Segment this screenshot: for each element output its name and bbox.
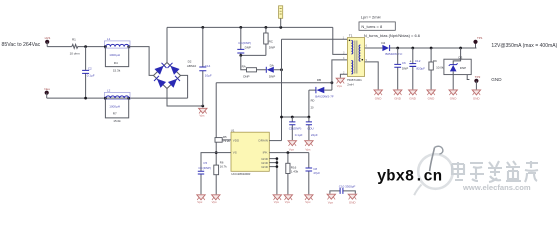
node junction C14 bottom (201, 105, 204, 108)
svg-text:CC(DNP): CC(DNP) (198, 166, 211, 170)
svg-text:GND: GND (261, 165, 269, 169)
wire bias winding to rail (332, 60, 348, 90)
ground secondary zener (449, 90, 457, 95)
wire drain vertical (281, 39, 283, 140)
resistor R5 (216, 139, 231, 141)
node Neu (45, 91, 49, 95)
svg-text:GND: GND (473, 97, 481, 101)
svg-text:Vpx: Vpx (274, 200, 280, 204)
svg-text:DNP: DNP (269, 46, 275, 50)
ground primary drain snubber 2 (305, 141, 313, 146)
svg-text:R7: R7 (113, 111, 117, 115)
snubber capacitor CC DNP (240, 27, 242, 55)
svg-text:RA: RA (242, 65, 246, 69)
svg-text:Vpx: Vpx (328, 200, 334, 204)
wire bridge plus up to rail (166, 27, 168, 62)
wire bridge minus down (167, 89, 203, 107)
node junction ipk-R16 (287, 151, 290, 154)
node TP2 (474, 79, 478, 83)
ground primary under C14 (199, 108, 207, 113)
node junction rail-CC (239, 26, 242, 29)
resistor R7 parallel loop (105, 98, 128, 118)
svg-text:HV1: HV1 (45, 36, 51, 40)
wire bulk rail drop to transformer pin 3 (333, 27, 348, 54)
svg-text:N_turns_bias (Npri/Nbias) = 6.: N_turns_bias (Npri/Nbias) = 6.6 (364, 33, 421, 38)
capacitor C14 (202, 27, 204, 106)
capacitor CD DNP drain snubber (291, 117, 293, 140)
svg-text:47µF: 47µF (313, 171, 320, 175)
wire top rail left (47, 46, 72, 48)
svg-text:C2: C2 (88, 67, 92, 71)
ground secondary C12 (409, 90, 417, 95)
resistor R4 parallel loop (105, 47, 128, 67)
wire drain to transformer pin 1 (282, 38, 348, 40)
wire U1 drain pin (269, 140, 281, 142)
note N_turns boxed (359, 22, 395, 30)
svg-text:CDU: CDU (307, 127, 314, 131)
svg-text:TP1: TP1 (477, 36, 483, 40)
resistor R16 (287, 153, 289, 164)
zener block DNP (453, 48, 460, 64)
wire bottom rail (47, 97, 188, 99)
svg-text:1000µH: 1000µH (109, 53, 120, 57)
svg-text:Lpri = 2mH: Lpri = 2mH (361, 14, 381, 19)
svg-text:R4: R4 (114, 61, 118, 65)
svg-text:CC(DNP): CC(DNP) (238, 41, 251, 45)
wire bias diode to drain row (308, 90, 310, 117)
diode DB BAV20WS-7F (309, 89, 332, 91)
svg-text:12V@350mA (max = 400mA): 12V@350mA (max = 400mA) (491, 43, 557, 49)
node junction rail-C12 (411, 47, 414, 50)
clamp row wire (241, 55, 282, 69)
node junction rail-C14 (201, 26, 204, 29)
node HV1 (45, 40, 49, 44)
svg-text:Neu: Neu (44, 87, 50, 91)
svg-text:GND: GND (409, 97, 417, 101)
svg-text:C12: C12 (415, 59, 421, 63)
wire VDD bias rail (216, 82, 332, 84)
ground primary C8 (305, 195, 313, 200)
svg-text:VDD: VDD (233, 138, 240, 142)
capacitor C12 820uF (412, 48, 414, 89)
svg-text:Vpx: Vpx (305, 200, 311, 204)
svg-text:L1: L1 (107, 37, 111, 41)
zener diode D3 (450, 65, 457, 71)
node VS junction (215, 151, 218, 154)
node TP1 (475, 42, 477, 48)
svg-text:C6: C6 (402, 61, 406, 65)
snubber resistor RC DNP (265, 27, 267, 55)
svg-text:N_turns = 8: N_turns = 8 (361, 24, 383, 29)
svg-text:10 ohm: 10 ohm (70, 52, 81, 56)
svg-text:1000µH: 1000µH (109, 105, 120, 109)
wire bottom rail to bridge right (181, 75, 188, 98)
svg-text:BAV20WS-7F: BAV20WS-7F (315, 95, 334, 99)
watermark chinese chars (452, 161, 538, 182)
ground primary R6 (212, 195, 220, 200)
ground secondary C6 (394, 90, 402, 95)
svg-text:GND: GND (349, 200, 357, 204)
node junction rail-R9 (430, 47, 433, 50)
node junction C2 bottom (84, 97, 87, 100)
ground primary C5 (197, 195, 205, 200)
svg-text:15.0k: 15.0k (113, 119, 121, 123)
bridge rectifier D2 (154, 63, 181, 89)
svg-text:GND: GND (394, 97, 402, 101)
svg-text:DRAIN: DRAIN (259, 138, 268, 142)
svg-text:B0540W-7-F: B0540W-7-F (385, 52, 402, 56)
svg-text:85Vac to 264Vac: 85Vac to 264Vac (2, 42, 41, 48)
node junction drain row left (280, 116, 283, 119)
capacitor CDU drain snubber 2 (308, 117, 310, 140)
node clamp-drain junction (280, 68, 283, 71)
ground secondary TP2 (472, 90, 480, 95)
svg-text:15.3k: 15.3k (113, 69, 121, 73)
wire L1 to bridge (129, 47, 154, 76)
svg-text:UCC28910DR: UCC28910DR (231, 172, 251, 176)
svg-text:Vpx: Vpx (197, 200, 203, 204)
resistor R9 bleeder (430, 48, 432, 89)
svg-text:TP2: TP2 (475, 75, 481, 79)
svg-text:Vpx: Vpx (337, 84, 343, 88)
svg-text:RD: RD (311, 99, 315, 103)
svg-text:D4: D4 (381, 41, 385, 45)
svg-text:L2: L2 (107, 89, 111, 93)
wire bias return to ground (340, 74, 347, 77)
op-amp U1 UCC28910 (231, 132, 269, 171)
svg-text:DB: DB (317, 78, 321, 82)
svg-text:0.1µF: 0.1µF (295, 133, 303, 137)
main bulk rail (167, 26, 333, 28)
ground secondary R9 (427, 90, 435, 95)
svg-text:T1: T1 (349, 34, 353, 38)
capacitor C8 (308, 153, 310, 195)
svg-text:C5: C5 (203, 161, 207, 165)
svg-text:DNP: DNP (243, 74, 249, 78)
node junction C2 top (84, 45, 87, 48)
svg-text:DNP: DNP (245, 46, 251, 50)
ground primary bias (336, 78, 344, 83)
wire secondary output rail (365, 47, 477, 49)
svg-text:0.1µF: 0.1µF (87, 74, 95, 78)
wire VS node to VS pin (216, 152, 231, 154)
svg-text:D2: D2 (188, 60, 192, 64)
svg-text:IPK: IPK (263, 150, 268, 154)
svg-text:GND: GND (491, 77, 502, 82)
node junction rail-fuse (279, 26, 282, 29)
svg-text:1.43k: 1.43k (291, 170, 299, 174)
resistor RA DNP (247, 68, 257, 72)
svg-text:D3: D3 (459, 56, 463, 60)
svg-text:U1: U1 (231, 129, 235, 133)
svg-text:ABS10: ABS10 (187, 64, 197, 68)
svg-text:Vpx: Vpx (289, 148, 295, 152)
svg-text:R1: R1 (72, 38, 76, 42)
diode DA DNP (267, 67, 274, 73)
svg-text:ybx8.cn: ybx8.cn (377, 167, 442, 185)
wire VDD rail down to VS divider (215, 83, 217, 165)
node junction drain row CDU (308, 116, 311, 119)
svg-text:73.2k: 73.2k (223, 139, 230, 143)
svg-text:Vpx: Vpx (199, 114, 205, 118)
wire U1 ipk row (269, 152, 309, 154)
svg-text:+: + (410, 59, 412, 63)
svg-text:C10 3300pF: C10 3300pF (339, 184, 356, 188)
svg-text:DNP: DNP (460, 66, 466, 70)
ground primary drain snubber 1 (288, 141, 296, 146)
capacitor C5 CC(DNP) (201, 153, 216, 195)
capacitor C2 (85, 47, 87, 71)
watermark ring (418, 154, 453, 189)
ground secondary C10 right (348, 194, 356, 199)
svg-text:DNP: DNP (402, 67, 408, 71)
svg-text:16.7k: 16.7k (220, 165, 227, 169)
svg-text:Vpx: Vpx (305, 148, 311, 152)
node junction rail-zener (459, 47, 462, 50)
ground primary U1 (273, 195, 281, 200)
svg-text:www.elecfans.com: www.elecfans.com (462, 183, 531, 192)
wire secondary return (365, 62, 379, 90)
svg-text:R9: R9 (433, 59, 437, 63)
svg-text:22pF: 22pF (311, 133, 318, 137)
svg-text:10.0k: 10.0k (436, 66, 444, 70)
wire U1 gnd pins chain (269, 159, 277, 195)
diode D4 output rectifier (382, 45, 389, 51)
ground secondary T1 return (374, 90, 382, 95)
svg-text:DA: DA (270, 64, 274, 68)
wire R1 to L1 (78, 46, 105, 48)
node junction bias rail right (331, 81, 334, 84)
ground primary R16 (284, 195, 292, 200)
svg-text:2mH: 2mH (347, 82, 353, 86)
node junction drain row CD (291, 116, 294, 119)
node junction rail-RC (265, 26, 268, 29)
capacitor C6 DNP (397, 48, 399, 89)
wire drain row (282, 116, 309, 118)
svg-text:Vpx: Vpx (285, 200, 291, 204)
svg-text:VS: VS (233, 150, 237, 154)
svg-text:820µF: 820µF (416, 67, 425, 71)
transformer T1 (347, 38, 364, 77)
svg-text:CD(DNP): CD(DNP) (289, 127, 302, 131)
svg-text:GND: GND (428, 97, 436, 101)
svg-text:GND: GND (375, 97, 383, 101)
watermark swirl (430, 148, 435, 172)
resistor R6 (214, 165, 219, 175)
svg-text:10µF: 10µF (205, 74, 212, 78)
svg-text:Vpx: Vpx (212, 200, 218, 204)
svg-text:C14: C14 (205, 64, 211, 68)
wire snubber bottom (241, 54, 266, 56)
svg-text:DNP: DNP (269, 74, 275, 78)
fuse component top yellow (279, 6, 283, 18)
node junction rail-C6 (396, 47, 399, 50)
ground primary C10 left (327, 194, 335, 199)
svg-text:GND: GND (450, 97, 458, 101)
